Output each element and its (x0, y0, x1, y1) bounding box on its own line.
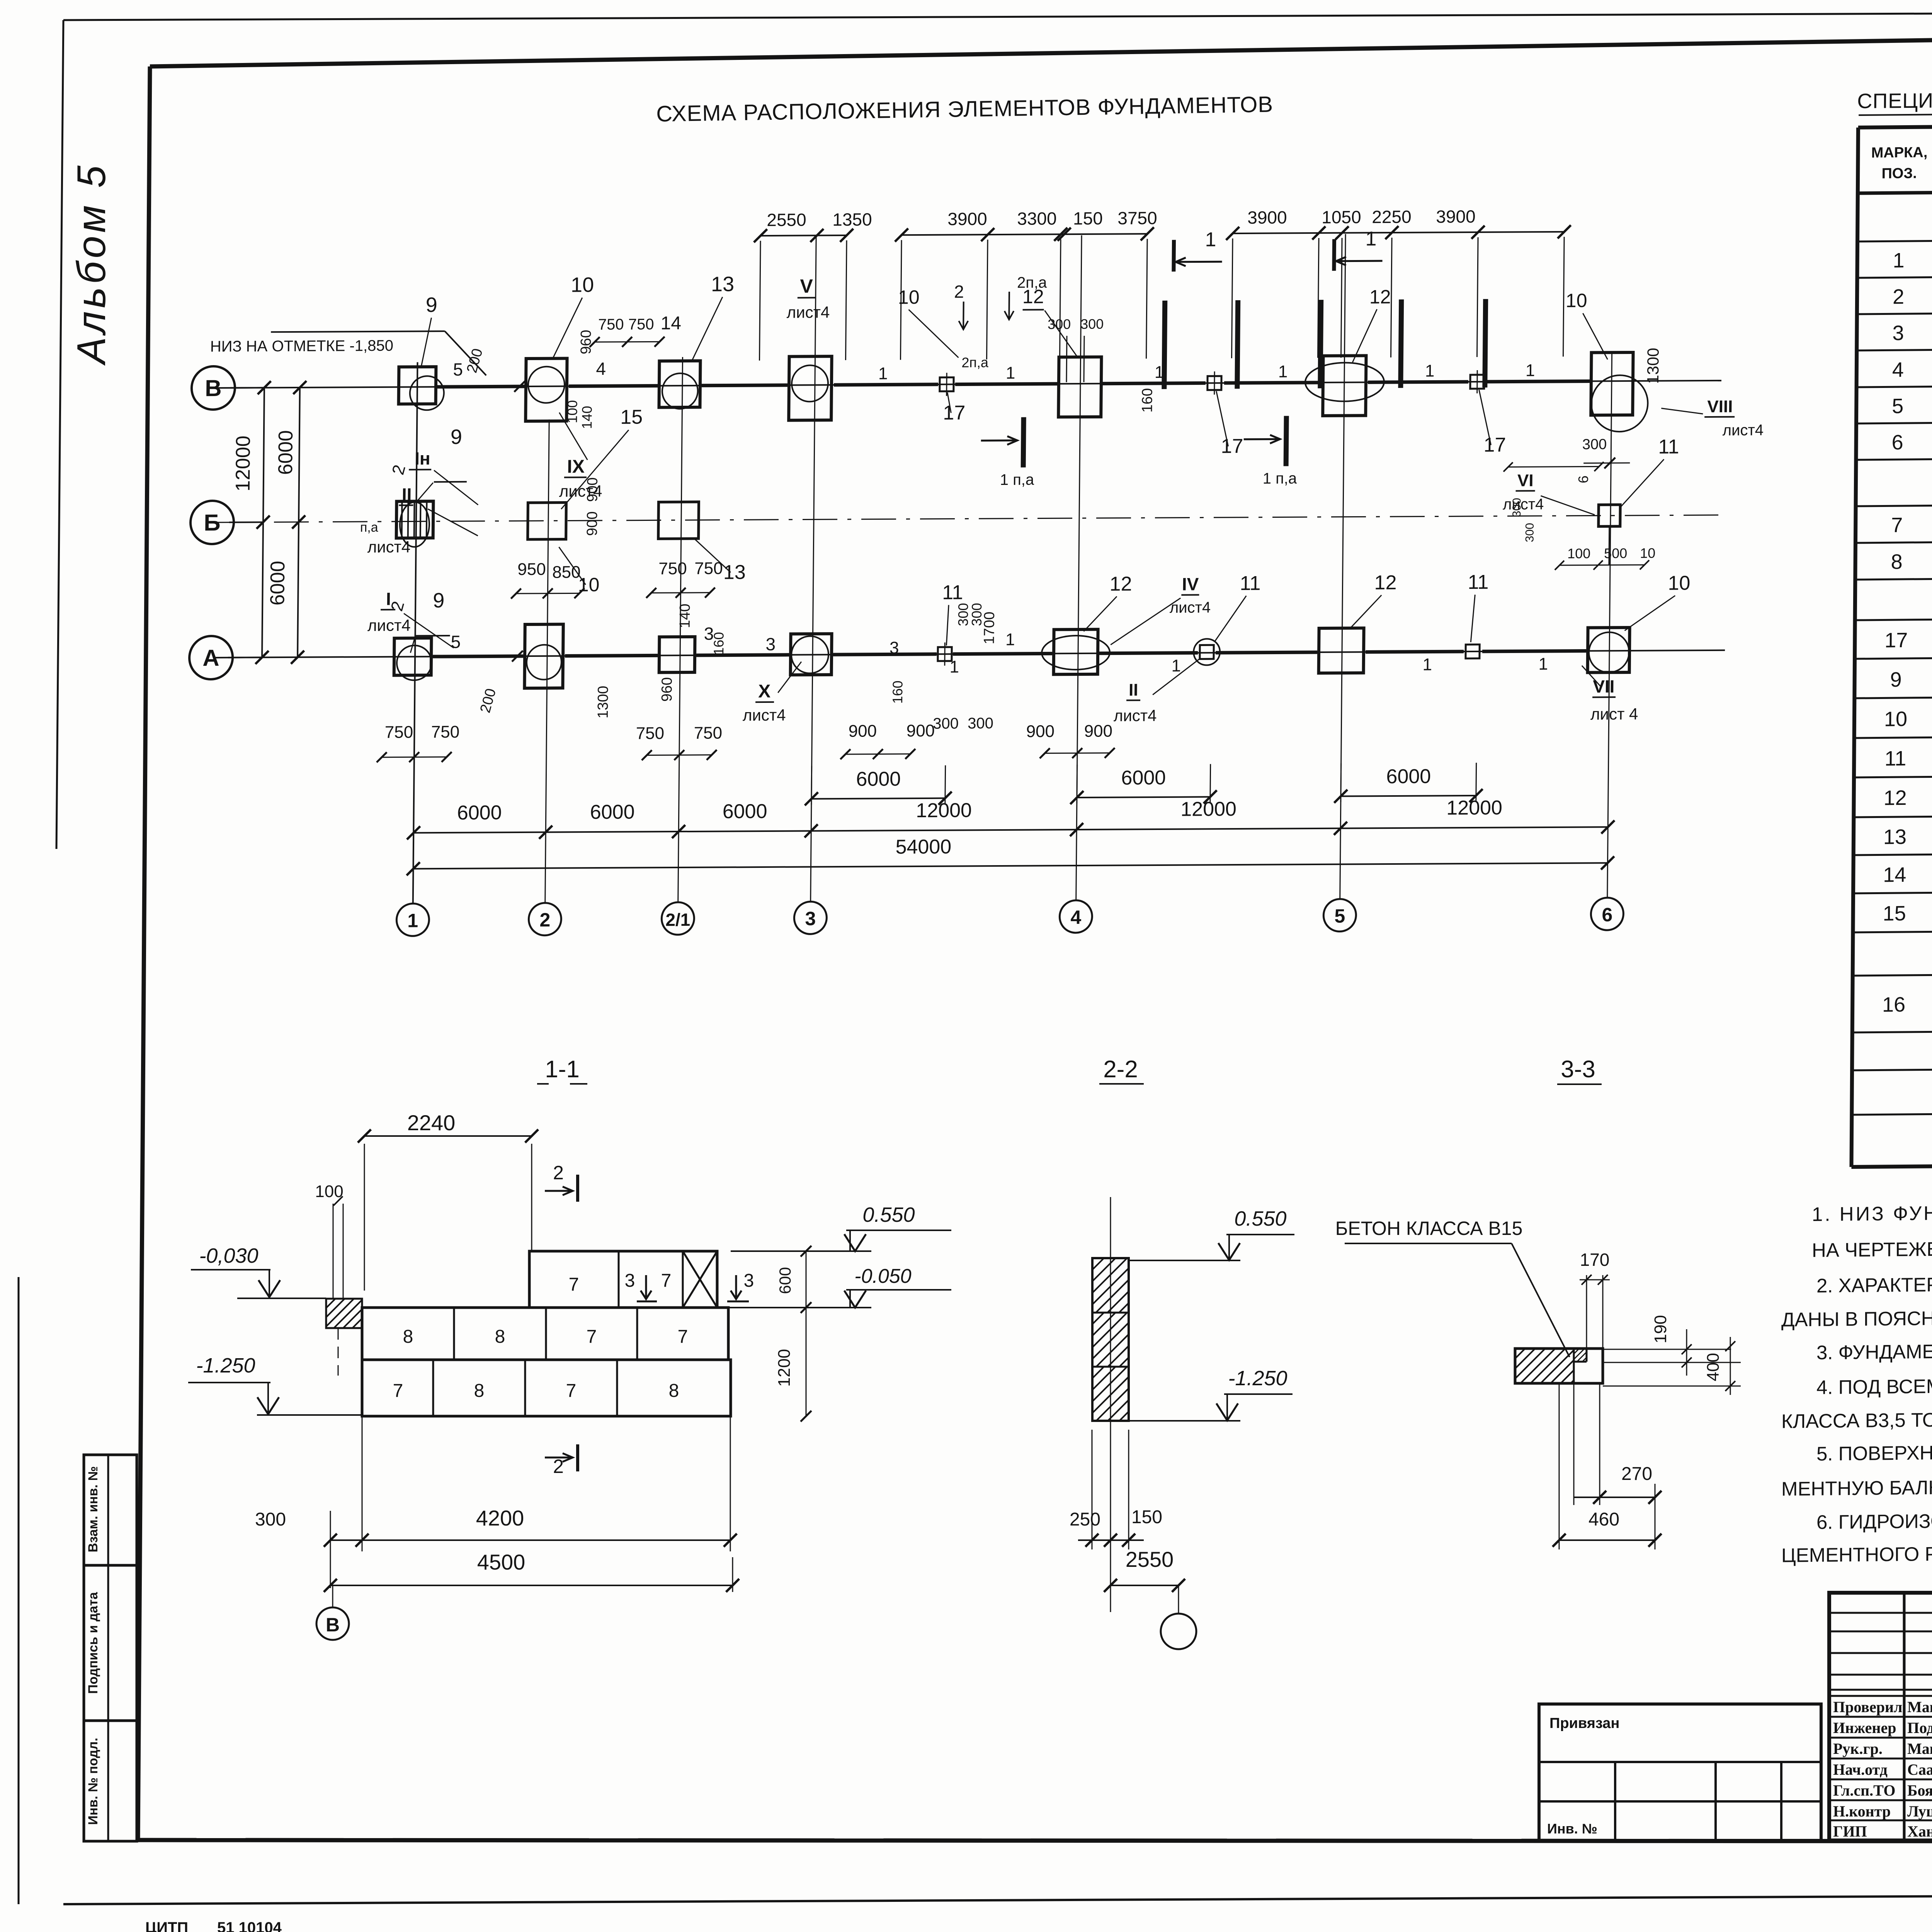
svg-text:Инв. № подл.: Инв. № подл. (86, 1738, 100, 1825)
svg-text:300: 300 (968, 715, 993, 732)
svg-text:2550: 2550 (1126, 1547, 1174, 1571)
svg-text:6: 6 (1602, 904, 1612, 925)
svg-text:2240: 2240 (407, 1111, 456, 1135)
svg-text:15: 15 (620, 406, 643, 429)
svg-text:В: В (326, 1614, 340, 1636)
svg-text:лист4: лист4 (787, 303, 830, 321)
svg-text:12000: 12000 (1446, 797, 1502, 820)
svg-text:9: 9 (433, 589, 445, 612)
svg-text:750: 750 (385, 723, 413, 742)
svg-text:Макарова: Макарова (1907, 1740, 1932, 1757)
svg-text:1: 1 (1538, 655, 1548, 673)
svg-text:300: 300 (1523, 523, 1536, 542)
svg-text:Луценко: Луценко (1907, 1803, 1932, 1820)
svg-text:14: 14 (1883, 863, 1906, 886)
svg-text:1: 1 (1006, 364, 1015, 383)
svg-text:Боярченко: Боярченко (1907, 1782, 1932, 1799)
svg-text:160: 160 (711, 632, 727, 655)
svg-text:12: 12 (1369, 286, 1391, 308)
svg-text:-0,030: -0,030 (199, 1244, 258, 1267)
svg-text:4: 4 (1892, 358, 1904, 381)
svg-text:12000: 12000 (1180, 798, 1236, 821)
svg-text:3900: 3900 (1436, 206, 1476, 227)
svg-text:7: 7 (587, 1327, 597, 1347)
svg-text:0.550: 0.550 (862, 1203, 915, 1226)
svg-text:12: 12 (1109, 573, 1132, 595)
svg-text:9: 9 (1890, 668, 1901, 691)
svg-text:3: 3 (1892, 321, 1904, 345)
svg-text:Макарова: Макарова (1907, 1698, 1932, 1716)
svg-text:-1.250: -1.250 (1228, 1367, 1287, 1390)
svg-text:900: 900 (1026, 722, 1054, 741)
svg-text:150: 150 (1131, 1507, 1162, 1527)
svg-text:10: 10 (1566, 290, 1587, 311)
svg-text:750: 750 (658, 559, 687, 578)
svg-text:НИЗ НА ОТМЕТКЕ -1,850: НИЗ НА ОТМЕТКЕ -1,850 (210, 337, 393, 355)
svg-text:10: 10 (571, 273, 594, 296)
svg-text:900: 900 (906, 721, 935, 740)
svg-text:VI: VI (1517, 471, 1534, 490)
svg-text:300: 300 (1080, 316, 1104, 332)
svg-text:9: 9 (451, 425, 463, 449)
svg-text:900: 900 (1084, 722, 1112, 741)
svg-text:750: 750 (694, 724, 722, 743)
svg-text:1 п,а: 1 п,а (1263, 470, 1298, 487)
svg-text:6000: 6000 (1386, 765, 1431, 788)
svg-text:12: 12 (1022, 286, 1044, 307)
svg-text:1: 1 (878, 364, 888, 383)
svg-text:класса В3,5 толщиной 100 мм.: класса В3,5 толщиной 100 мм. (1781, 1407, 1932, 1432)
svg-text:10: 10 (1640, 545, 1655, 561)
svg-text:6000: 6000 (590, 801, 635, 824)
svg-text:-1.250: -1.250 (196, 1354, 255, 1377)
svg-text:190: 190 (1651, 1315, 1670, 1343)
svg-text:Бетон класса В15: Бетон класса В15 (1335, 1218, 1523, 1239)
svg-text:12000: 12000 (232, 435, 255, 492)
svg-text:7: 7 (566, 1381, 577, 1401)
svg-text:лист4: лист4 (1723, 422, 1764, 439)
svg-text:5: 5 (1892, 395, 1903, 418)
svg-text:II: II (1129, 680, 1138, 699)
svg-text:750: 750 (628, 316, 654, 333)
svg-text:16: 16 (1882, 993, 1905, 1016)
svg-text:8: 8 (1891, 550, 1902, 573)
svg-text:Подобный: Подобный (1907, 1719, 1932, 1736)
svg-text:140: 140 (677, 604, 694, 628)
svg-text:100: 100 (1567, 546, 1590, 561)
svg-text:IX: IX (567, 456, 585, 477)
svg-text:1: 1 (949, 658, 959, 677)
svg-text:960: 960 (659, 677, 675, 702)
svg-text:VII: VII (1593, 676, 1615, 696)
svg-text:2: 2 (539, 909, 550, 931)
svg-text:1700: 1700 (981, 612, 998, 645)
svg-text:1300: 1300 (1644, 348, 1662, 384)
svg-text:10: 10 (1668, 572, 1690, 594)
svg-text:2п,а: 2п,а (961, 354, 989, 370)
svg-text:В: В (205, 375, 222, 401)
svg-text:6: 6 (1891, 431, 1903, 454)
svg-text:3: 3 (889, 638, 899, 657)
svg-text:2: 2 (1893, 285, 1904, 308)
svg-text:2250: 2250 (1372, 207, 1412, 227)
svg-text:4500: 4500 (477, 1550, 526, 1574)
svg-text:6000: 6000 (856, 768, 901, 791)
svg-text:1: 1 (1425, 362, 1435, 381)
svg-text:II: II (402, 484, 412, 504)
svg-text:VIII: VIII (1707, 397, 1733, 416)
svg-text:Подпись и дата: Подпись и дата (86, 1592, 100, 1694)
svg-text:Инв. №: Инв. № (1547, 1821, 1597, 1837)
svg-text:1: 1 (1422, 655, 1432, 674)
svg-text:5: 5 (1334, 905, 1345, 927)
svg-text:100: 100 (564, 400, 580, 423)
svg-text:8: 8 (495, 1327, 505, 1347)
svg-text:1: 1 (1205, 228, 1216, 251)
svg-text:12000: 12000 (916, 799, 972, 822)
svg-text:600: 600 (776, 1267, 794, 1294)
svg-text:2: 2 (954, 281, 964, 301)
svg-text:300: 300 (1510, 498, 1523, 517)
svg-text:1: 1 (1278, 362, 1288, 381)
svg-text:3300: 3300 (1017, 208, 1057, 229)
svg-text:10: 10 (898, 286, 920, 308)
svg-text:7: 7 (1891, 514, 1903, 537)
svg-text:V: V (800, 275, 813, 297)
svg-text:170: 170 (1580, 1250, 1610, 1270)
svg-text:300: 300 (1582, 436, 1607, 452)
svg-text:7: 7 (678, 1327, 688, 1347)
svg-text:Рук.гр.: Рук.гр. (1833, 1740, 1883, 1757)
svg-text:250: 250 (1070, 1509, 1100, 1530)
svg-text:Альбом 5: Альбом 5 (69, 162, 114, 366)
svg-text:Привязан: Привязан (1549, 1715, 1619, 1731)
svg-text:13: 13 (723, 561, 746, 583)
svg-text:Б: Б (204, 510, 221, 536)
svg-text:51 10104: 51 10104 (217, 1919, 282, 1932)
svg-text:160: 160 (889, 680, 906, 704)
svg-text:100: 100 (315, 1182, 343, 1201)
svg-text:150: 150 (1073, 208, 1103, 228)
svg-text:7: 7 (393, 1381, 403, 1401)
svg-text:2550: 2550 (767, 209, 806, 230)
svg-text:300: 300 (1048, 316, 1071, 332)
svg-text:6000: 6000 (266, 561, 289, 605)
svg-text:460: 460 (1588, 1509, 1619, 1530)
svg-text:0.550: 0.550 (1234, 1207, 1286, 1230)
svg-text:Саакьянц: Саакьянц (1907, 1761, 1932, 1778)
svg-text:3900: 3900 (1247, 207, 1287, 228)
svg-text:3: 3 (744, 1270, 754, 1291)
svg-text:11: 11 (1468, 571, 1488, 594)
svg-text:8: 8 (669, 1381, 679, 1401)
svg-text:9: 9 (425, 293, 437, 316)
svg-text:13: 13 (711, 272, 735, 296)
svg-text:лист4: лист4 (367, 616, 411, 634)
svg-text:на чертеже.: на чертеже. (1812, 1238, 1932, 1261)
svg-text:6: 6 (1575, 475, 1591, 483)
svg-text:1: 1 (407, 910, 418, 931)
svg-text:2/1: 2/1 (665, 910, 690, 930)
svg-text:-0.050: -0.050 (854, 1265, 912, 1287)
svg-text:1: 1 (1526, 361, 1535, 380)
svg-text:2: 2 (553, 1456, 564, 1477)
svg-text:11: 11 (1240, 572, 1260, 595)
svg-text:900: 900 (584, 511, 601, 536)
svg-text:1: 1 (1893, 249, 1904, 272)
svg-text:Iн: Iн (415, 448, 430, 468)
svg-text:160: 160 (1139, 388, 1156, 413)
svg-text:300: 300 (255, 1509, 286, 1530)
svg-text:Инженер: Инженер (1833, 1719, 1896, 1736)
svg-text:1200: 1200 (775, 1349, 794, 1387)
svg-text:11: 11 (942, 581, 963, 604)
svg-text:2: 2 (553, 1162, 564, 1184)
svg-text:лист4: лист4 (367, 537, 411, 556)
svg-text:Взам. инв. №: Взам. инв. № (86, 1466, 100, 1552)
svg-text:п,а: п,а (360, 520, 378, 535)
svg-text:270: 270 (1621, 1464, 1652, 1484)
svg-text:Ханин: Ханин (1907, 1823, 1932, 1840)
svg-text:17: 17 (1483, 434, 1506, 456)
svg-text:лист4: лист4 (743, 706, 786, 724)
svg-text:лист 4: лист 4 (1590, 705, 1638, 723)
svg-text:Проверил: Проверил (1833, 1698, 1902, 1716)
svg-text:1-1: 1-1 (545, 1056, 580, 1083)
svg-text:960: 960 (578, 330, 595, 354)
svg-text:54000: 54000 (895, 836, 951, 859)
svg-text:6000: 6000 (457, 801, 502, 824)
svg-text:3750: 3750 (1117, 208, 1157, 228)
svg-text:15: 15 (1883, 902, 1906, 925)
svg-text:10: 10 (1884, 707, 1907, 731)
svg-text:750: 750 (598, 316, 624, 333)
svg-text:Гл.сп.ТО: Гл.сп.ТО (1833, 1782, 1895, 1799)
svg-text:1300: 1300 (595, 686, 612, 719)
svg-text:3: 3 (625, 1270, 635, 1291)
svg-text:Нач.отд: Нач.отд (1833, 1761, 1888, 1778)
svg-text:6000: 6000 (723, 800, 767, 823)
svg-text:950: 950 (517, 560, 546, 579)
svg-text:1350: 1350 (832, 209, 872, 230)
svg-text:12: 12 (1374, 571, 1396, 594)
svg-text:IV: IV (1182, 574, 1199, 594)
svg-text:750: 750 (636, 724, 664, 743)
svg-text:2-2: 2-2 (1103, 1056, 1138, 1083)
svg-text:1050: 1050 (1321, 207, 1361, 227)
svg-text:3900: 3900 (947, 209, 987, 229)
svg-text:7: 7 (661, 1270, 672, 1291)
svg-text:лист4: лист4 (1114, 706, 1157, 725)
svg-text:14: 14 (660, 313, 681, 333)
svg-text:17: 17 (943, 401, 965, 424)
svg-text:4: 4 (596, 359, 606, 379)
svg-text:1: 1 (1365, 228, 1376, 250)
svg-text:1 п,а: 1 п,а (1000, 471, 1035, 488)
svg-text:750: 750 (431, 723, 460, 742)
svg-text:400: 400 (1704, 1353, 1723, 1381)
svg-text:А: А (202, 645, 219, 671)
svg-text:X: X (758, 681, 770, 702)
svg-text:500: 500 (1604, 545, 1627, 561)
svg-text:3-3: 3-3 (1561, 1056, 1595, 1083)
svg-text:5: 5 (451, 632, 461, 652)
svg-text:11: 11 (1658, 435, 1679, 458)
svg-text:6000: 6000 (1121, 767, 1166, 789)
svg-text:ГИП: ГИП (1833, 1823, 1867, 1840)
svg-text:4: 4 (1070, 906, 1081, 928)
svg-text:12: 12 (1883, 786, 1906, 810)
svg-text:ПОЗ.: ПОЗ. (1881, 165, 1917, 182)
svg-text:1: 1 (1005, 630, 1015, 649)
svg-text:4200: 4200 (476, 1506, 524, 1530)
svg-text:900: 900 (849, 722, 877, 741)
svg-text:17: 17 (1221, 435, 1243, 457)
svg-text:Н.контр: Н.контр (1833, 1803, 1891, 1820)
svg-text:300: 300 (933, 715, 959, 732)
svg-text:6000: 6000 (274, 430, 297, 475)
svg-text:7: 7 (569, 1274, 579, 1295)
svg-text:13: 13 (1883, 825, 1906, 849)
svg-text:8: 8 (474, 1381, 485, 1401)
svg-text:11: 11 (1884, 747, 1906, 770)
svg-text:900: 900 (584, 477, 601, 502)
svg-text:1: 1 (1171, 656, 1181, 675)
svg-text:3: 3 (805, 908, 816, 929)
svg-text:3: 3 (765, 634, 776, 654)
svg-text:МАРКА,: МАРКА, (1871, 145, 1928, 161)
svg-text:1: 1 (1155, 363, 1164, 382)
svg-text:140: 140 (579, 406, 595, 429)
svg-text:8: 8 (403, 1327, 413, 1347)
svg-text:ЦИТП: ЦИТП (145, 1919, 188, 1932)
svg-text:5: 5 (453, 359, 463, 379)
svg-text:17: 17 (1884, 629, 1908, 652)
